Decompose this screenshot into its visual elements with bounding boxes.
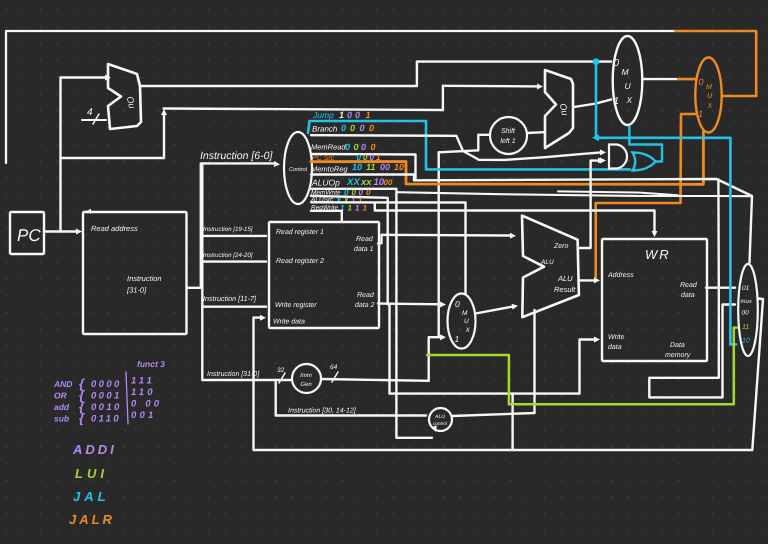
signal Jump label	[312, 110, 334, 120]
svg-text:0: 0	[350, 123, 355, 133]
svg-text:Read register 2: Read register 2	[276, 257, 324, 265]
svg-text:Instruction [11-7]: Instruction [11-7]	[203, 294, 257, 303]
wire Instruction[11-7]	[202, 306, 266, 308]
signal MemRead label	[311, 143, 346, 152]
label Read register 2	[276, 257, 324, 265]
ALU control circle	[429, 408, 452, 431]
wire new PC loop top (white)	[6, 31, 673, 163]
svg-text:10: 10	[352, 162, 362, 172]
wire RD2/MemWrite down	[388, 304, 390, 393]
svg-text:111: 111	[131, 376, 155, 387]
label JAL	[73, 489, 110, 504]
wire Instruction[24-20]	[202, 260, 266, 262]
wire DM read data out	[706, 287, 735, 289]
label Instruction [31-0] sign	[207, 370, 260, 378]
svg-text:funct 3: funct 3	[137, 359, 165, 369]
svg-text:0: 0	[345, 142, 350, 152]
signal PCSrc label	[312, 155, 335, 162]
label Read register 1	[276, 228, 324, 236]
wire mux M3 out to ALU	[476, 304, 519, 314]
OR gate (cyan)	[633, 153, 656, 171]
svg-text:Read: Read	[356, 235, 374, 243]
wire PC loop horizontal	[61, 157, 165, 159]
adder Add (PC+4)	[108, 64, 141, 129]
svg-text:Read: Read	[680, 281, 698, 289]
ALU	[522, 216, 579, 318]
wire bus to imm gen	[202, 379, 291, 381]
values PCSrc	[357, 153, 382, 162]
svg-text:XX: XX	[346, 177, 360, 188]
svg-text:0: 0	[360, 123, 365, 133]
svg-text:1: 1	[614, 96, 620, 107]
wire up at x443	[442, 86, 444, 110]
shift left 1 circle	[490, 117, 527, 154]
svg-text:001: 001	[131, 410, 156, 421]
wire ALU result to DM address	[579, 277, 600, 283]
wire MemRead	[311, 154, 416, 180]
adder Add (branch)	[545, 70, 573, 148]
svg-text:32: 32	[277, 367, 285, 374]
wire Branch	[311, 135, 601, 160]
signal ALUOp label	[311, 178, 340, 188]
wire write data horizontal	[390, 337, 601, 394]
svg-text:0: 0	[366, 188, 371, 197]
label Read address	[91, 224, 138, 233]
svg-text:Instruction [6-0]: Instruction [6-0]	[200, 150, 273, 162]
svg-text:Write: Write	[608, 333, 624, 341]
table funct3 encodings	[53, 372, 162, 426]
values Branch	[341, 123, 374, 133]
wire read data loop	[649, 288, 735, 398]
svg-text:X: X	[707, 103, 713, 110]
wire PC+4 into mux0	[417, 60, 611, 62]
svg-text:0: 0	[341, 123, 346, 133]
svg-text:ALU: ALU	[434, 414, 445, 420]
svg-text:0: 0	[361, 142, 366, 152]
svg-text:memory: memory	[665, 352, 691, 359]
svg-text:ALU: ALU	[557, 274, 573, 283]
svg-text:Data: Data	[670, 342, 685, 349]
label Read data 2	[355, 291, 375, 309]
wire mux M1 output	[642, 78, 678, 80]
wire connector to writeback	[511, 394, 513, 450]
wire Instruction[6-0] to control	[201, 161, 280, 288]
svg-text:1: 1	[363, 204, 368, 213]
label Instruction [30 14-12]	[288, 407, 357, 415]
svg-text:0001: 0001	[91, 391, 122, 402]
wire up at x417	[416, 62, 418, 86]
svg-text:JALR: JALR	[69, 512, 115, 527]
wire imm gen out	[321, 379, 429, 381]
svg-text:11: 11	[742, 324, 749, 331]
wire long horizontal to branch adder	[164, 109, 443, 111]
wire MemtoReg long to mux select	[414, 179, 752, 288]
svg-text:Instruction: Instruction	[127, 274, 162, 283]
wire imm vertical tap	[438, 152, 440, 337]
register file box	[269, 222, 379, 328]
svg-text:00: 00	[742, 310, 750, 317]
label ALU	[540, 259, 554, 266]
mux M4 (writeback)	[738, 264, 758, 356]
label Write data (DM)	[608, 333, 624, 351]
svg-text:1: 1	[355, 204, 360, 213]
wire Zero out	[578, 158, 604, 249]
svg-text:OR: OR	[54, 391, 68, 401]
svg-text:control: control	[433, 421, 448, 426]
data memory box	[602, 239, 707, 361]
signal RegWrite label	[311, 204, 338, 211]
label Instruction [6-0]	[200, 150, 273, 162]
label ADDI	[72, 442, 117, 457]
signal MemtoReg label	[311, 165, 349, 174]
svg-text:1: 1	[455, 334, 460, 344]
svg-text:Read register 1: Read register 1	[276, 228, 324, 236]
svg-text:U: U	[464, 318, 469, 325]
values MemRead	[345, 142, 376, 152]
svg-text:Write data: Write data	[273, 318, 305, 326]
imm gen circle	[292, 364, 321, 393]
svg-text:Imm: Imm	[300, 372, 312, 379]
svg-text:1: 1	[366, 110, 371, 120]
svg-text:X: X	[626, 95, 633, 105]
svg-text:Gen: Gen	[300, 381, 312, 388]
svg-text:64: 64	[330, 364, 338, 371]
wire shift out to branch adder	[527, 131, 544, 134]
wire Jump (cyan)	[308, 121, 630, 169]
svg-text:0: 0	[369, 123, 374, 133]
label funct 3	[137, 359, 165, 369]
svg-text:M: M	[706, 84, 712, 91]
svg-text:Instruction [31-0]: Instruction [31-0]	[207, 370, 260, 378]
mux M3 (ALUSrc)	[448, 294, 476, 349]
svg-text:0000: 0000	[91, 379, 122, 390]
svg-text:AND: AND	[53, 379, 72, 389]
wire instruction bus vertical	[201, 163, 203, 380]
wire ALU control to ALU	[452, 310, 535, 416]
svg-text:Instruction [19-15]: Instruction [19-15]	[203, 226, 253, 233]
wire OR output to mux M1 select (cyan)	[629, 127, 662, 162]
wire mux M1 out to M2 input 0 (orange)	[678, 78, 696, 81]
svg-text:0: 0	[354, 142, 359, 152]
svg-text:left 1: left 1	[500, 137, 515, 145]
label Write register	[275, 301, 317, 309]
svg-text:Read: Read	[357, 291, 375, 299]
svg-text:Write register: Write register	[275, 301, 317, 309]
wire Instruction[19-15]	[202, 235, 266, 237]
wire ALUOp	[311, 189, 437, 438]
wire instr funct to ALU control	[276, 380, 426, 416]
label Zero	[553, 243, 569, 250]
svg-text:Address: Address	[607, 271, 634, 279]
values MemtoReg	[352, 162, 404, 172]
PC register	[10, 212, 44, 254]
svg-text:PC: PC	[17, 226, 41, 245]
label Read data 1	[354, 235, 374, 253]
svg-text:data: data	[608, 343, 622, 351]
mux M1 (PC+4/branch)	[613, 36, 643, 125]
label Instruction [19-15]	[203, 226, 253, 233]
label WR	[645, 247, 671, 262]
label Address	[607, 271, 634, 279]
svg-text:00: 00	[384, 178, 393, 187]
wire MemtoReg	[311, 175, 414, 181]
svg-text:MemRead: MemRead	[311, 143, 346, 152]
svg-text:Control: Control	[289, 166, 308, 173]
svg-text:ALUOp: ALUOp	[311, 178, 340, 188]
svg-text:X: X	[465, 327, 471, 334]
svg-text:0: 0	[614, 58, 620, 69]
instruction memory box	[83, 209, 187, 334]
values ALUSrc	[335, 196, 363, 205]
label 4 constant	[82, 107, 106, 124]
svg-text:U: U	[625, 81, 632, 91]
signal ALUSrc label	[310, 196, 334, 203]
label Instruction [24-20]	[203, 252, 253, 259]
wire imm to M4 input 11 (green)	[427, 328, 736, 405]
svg-text:M: M	[462, 310, 468, 317]
svg-text:0010: 0010	[91, 402, 122, 413]
svg-text:0: 0	[455, 299, 460, 309]
signal Branch label	[312, 125, 338, 134]
wire Read data 2 to mux	[378, 302, 446, 308]
svg-text:0: 0	[371, 142, 376, 152]
mux M2 final PC mux	[695, 58, 721, 133]
wire IM output to bus	[187, 287, 203, 289]
svg-text:Read address: Read address	[91, 224, 138, 233]
wire M2 output loop right-top (orange)	[673, 31, 756, 96]
label JALR	[69, 512, 115, 527]
svg-text:WR: WR	[645, 247, 671, 262]
svg-text:Shift: Shift	[501, 127, 516, 135]
wire ALU result to M2 input 1 (orange)	[596, 114, 697, 278]
svg-text:MemtoReg: MemtoReg	[311, 165, 349, 174]
AND gate	[600, 145, 627, 169]
values ALUOp	[346, 177, 393, 188]
svg-text:data 2: data 2	[355, 301, 375, 309]
svg-text:0: 0	[347, 110, 352, 120]
wire PC+4 to M4 input 10 (cyan)	[592, 58, 736, 344]
signal MemWrite label	[311, 190, 341, 197]
svg-text:0110: 0110	[91, 414, 121, 425]
svg-text:data 1: data 1	[354, 245, 374, 253]
svg-text:M: M	[622, 67, 630, 77]
wire WR write-enable	[375, 203, 658, 237]
label LUI	[75, 466, 108, 481]
svg-text:data: data	[681, 291, 695, 299]
wire imm to shift left	[439, 135, 490, 153]
svg-text:10: 10	[394, 162, 404, 172]
wire loop up to adder-line	[161, 109, 167, 158]
svg-text:LUI: LUI	[75, 466, 108, 481]
label ALU Result	[554, 274, 576, 294]
label Instruction [31-0]	[126, 274, 162, 295]
wire PC to instruction memory	[44, 229, 82, 235]
svg-text:add: add	[54, 402, 70, 412]
svg-text:1: 1	[698, 109, 703, 119]
svg-text:Jump: Jump	[312, 110, 334, 120]
wire PC tap vertical	[59, 158, 61, 232]
svg-text:1: 1	[348, 204, 353, 213]
svg-text:Instruction [24-20]: Instruction [24-20]	[203, 252, 253, 259]
svg-text:01: 01	[742, 285, 750, 292]
wire PC into add4 top input	[61, 75, 112, 159]
svg-text:Result: Result	[554, 285, 576, 294]
svg-text:Instruction [30, 14-12]: Instruction [30, 14-12]	[288, 407, 357, 415]
wire Read data 1 to ALU	[378, 233, 516, 244]
label Write data	[273, 318, 305, 326]
label Data memory	[665, 342, 691, 359]
svg-text:[31-0]: [31-0]	[126, 286, 147, 295]
wire M4 output writeback loop	[254, 299, 764, 451]
svg-text:4: 4	[87, 107, 93, 118]
svg-text:0: 0	[699, 77, 704, 87]
svg-text:ALU: ALU	[540, 259, 554, 266]
wire RegWrite	[311, 211, 342, 222]
svg-text:Zero: Zero	[553, 243, 569, 250]
values Jump	[339, 110, 371, 120]
svg-text:0 00: 0 00	[131, 399, 162, 410]
svg-text:mux: mux	[741, 299, 753, 305]
wire into branch adder top input	[443, 84, 543, 90]
svg-text:ADDI: ADDI	[72, 442, 117, 457]
svg-text:xx: xx	[360, 177, 372, 188]
wire imm up to mux	[429, 334, 446, 381]
wire PC+4 adder output	[140, 85, 417, 87]
values MemWrite	[344, 188, 371, 197]
label 64 tick	[330, 364, 338, 382]
wire ALUSrc	[311, 202, 466, 294]
wire PCSrc (orange)	[311, 132, 703, 185]
wire MemWrite	[311, 196, 388, 304]
wire branch adder output to mux1 input	[574, 100, 611, 108]
control unit oval	[284, 132, 312, 204]
svg-text:JAL: JAL	[73, 489, 110, 504]
svg-text:1: 1	[339, 110, 344, 120]
svg-text:11: 11	[366, 162, 375, 172]
label Instruction [11-7]	[203, 294, 257, 303]
label Read data (DM)	[680, 281, 698, 299]
label 32 tick	[277, 367, 285, 383]
svg-text:sub: sub	[54, 414, 69, 424]
svg-text:Branch: Branch	[312, 125, 338, 134]
wire MemRead extension right	[396, 191, 752, 196]
svg-text:0: 0	[355, 110, 360, 120]
values RegWrite	[340, 204, 368, 213]
svg-text:00: 00	[380, 162, 390, 172]
svg-text:10: 10	[742, 338, 750, 345]
svg-text:110: 110	[131, 387, 156, 398]
